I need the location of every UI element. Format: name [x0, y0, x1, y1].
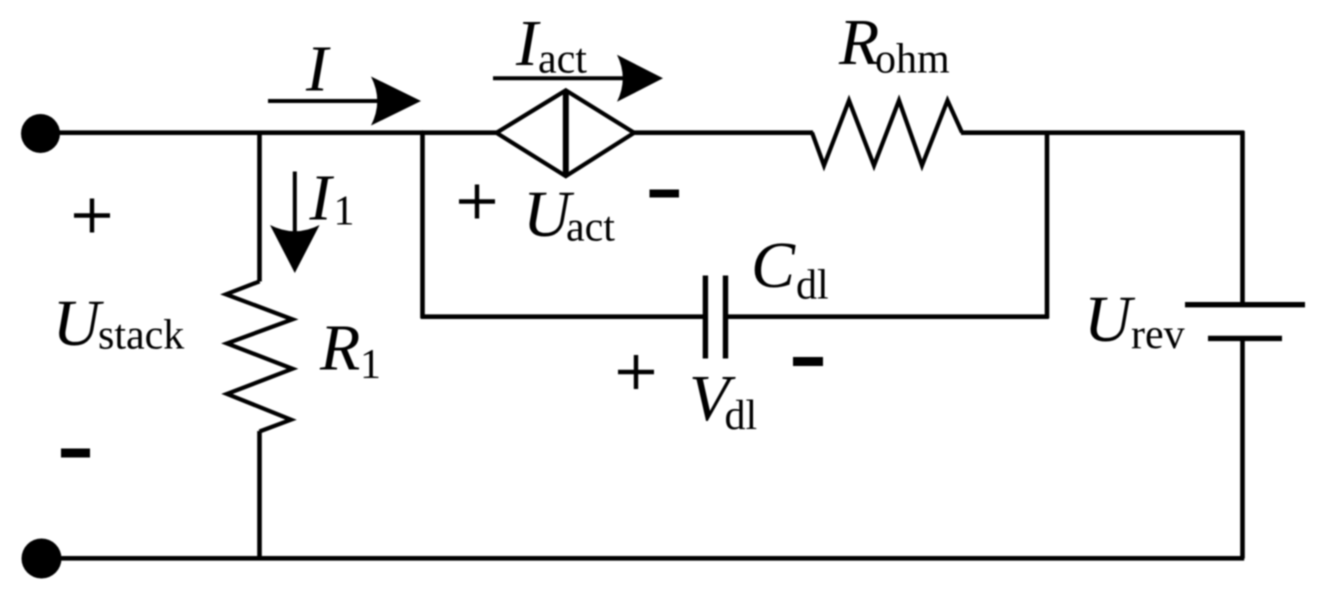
plus sign of Vdl [618, 355, 654, 389]
node B: junction left side of Cdl loop [420, 131, 425, 318]
capacitor Cdl (left plate) [703, 276, 708, 359]
minus sign of Uact [650, 190, 680, 198]
dependent source U1 (center bar) [563, 90, 569, 176]
current arrow I1 (head) [270, 225, 320, 273]
svg-text:dl: dl [796, 262, 829, 308]
plus sign of Ustack [74, 199, 110, 233]
wire: U_act to R_ohm [634, 130, 813, 135]
svg-text:U: U [1084, 283, 1136, 356]
wire: node A to dependent source U_act [422, 130, 497, 135]
node A: junction of R1 branch at top wire [257, 131, 262, 282]
current arrow Iact (line) [493, 76, 630, 80]
wire: R1 bottom to bottom rail [257, 431, 262, 559]
node C: junction right side of Cdl loop [1045, 131, 1050, 318]
svg-text:I: I [305, 33, 331, 106]
svg-text:rev: rev [1131, 312, 1185, 358]
minus sign of Ustack [61, 449, 90, 458]
terminal dot bottom-left [22, 539, 62, 579]
minus sign of Vdl [793, 357, 823, 366]
dependent source U1 (diamond) [496, 90, 634, 176]
wire: R_ohm to right corner [961, 130, 1244, 135]
svg-text:act: act [566, 205, 615, 251]
svg-text:act: act [538, 37, 587, 83]
svg-text:ohm: ohm [875, 36, 950, 82]
svg-text:R: R [838, 6, 879, 79]
svg-text:I: I [309, 162, 335, 235]
resistor Rohm (zigzag) [812, 101, 962, 166]
terminal dot top-left [21, 114, 60, 153]
wire: right rail top (to battery) [1240, 131, 1245, 305]
svg-text:stack: stack [98, 313, 184, 359]
current arrow Iact (head) [617, 55, 663, 102]
current arrow I (line) [268, 99, 385, 103]
capacitor Cdl (right plate) [723, 276, 728, 359]
battery Urev (long plate) [1185, 302, 1305, 307]
wire: right rail bottom (battery to bottom rail) [1240, 338, 1245, 558]
wire: Cdl loop bottom left [421, 314, 703, 319]
svg-text:1: 1 [334, 189, 355, 235]
svg-text:U: U [53, 287, 105, 360]
wire bottom rail [42, 556, 1245, 561]
resistor R1 (zigzag) [226, 281, 293, 431]
svg-text:dl: dl [725, 393, 758, 439]
current arrow I (head) [371, 77, 421, 126]
wire: Cdl loop bottom right [728, 314, 1049, 319]
svg-text:C: C [751, 229, 796, 302]
plus sign of Uact [459, 185, 495, 219]
wire top: left terminal to node A [40, 130, 423, 135]
svg-text:R: R [319, 312, 360, 385]
current arrow I1 (line) [293, 172, 297, 241]
battery Urev (short plate) [1208, 336, 1282, 341]
svg-text:1: 1 [360, 342, 381, 388]
